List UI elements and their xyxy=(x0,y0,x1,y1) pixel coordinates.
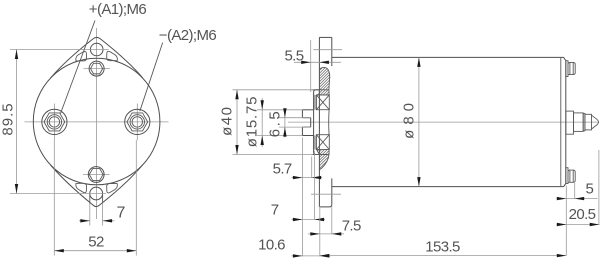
svg-text:10.6: 10.6 xyxy=(258,237,285,254)
svg-text:89.5: 89.5 xyxy=(0,102,17,135)
svg-text:−(A2);M6: −(A2);M6 xyxy=(159,27,217,44)
svg-text:6.5: 6.5 xyxy=(266,109,283,137)
svg-text:ø80: ø80 xyxy=(401,98,418,139)
svg-text:7: 7 xyxy=(117,204,126,221)
svg-text:153.5: 153.5 xyxy=(425,238,460,255)
svg-text:7: 7 xyxy=(271,202,279,219)
svg-text:5.7: 5.7 xyxy=(273,160,292,177)
svg-text:5.5: 5.5 xyxy=(284,47,303,64)
svg-text:ø40: ø40 xyxy=(219,106,236,136)
svg-text:5: 5 xyxy=(586,180,594,197)
svg-text:7.5: 7.5 xyxy=(342,218,361,235)
svg-text:20.5: 20.5 xyxy=(569,206,596,223)
svg-text:ø15.75: ø15.75 xyxy=(244,96,261,148)
svg-text:+(A1);M6: +(A1);M6 xyxy=(89,1,147,18)
svg-text:52: 52 xyxy=(88,233,104,250)
